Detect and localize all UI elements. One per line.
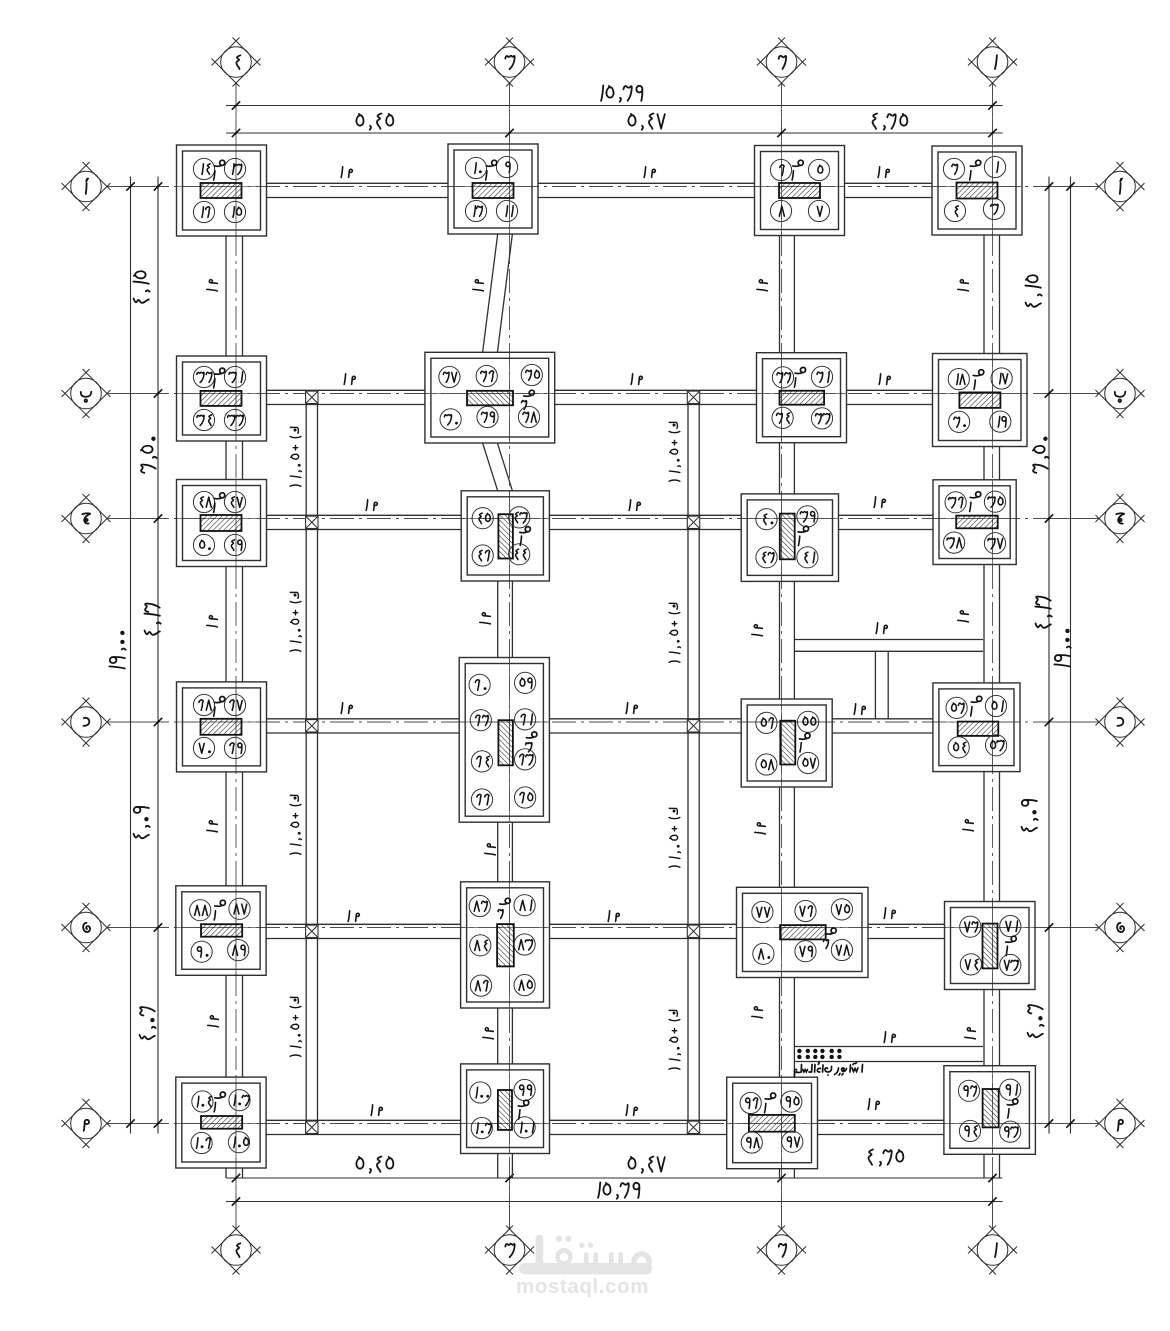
column marker on K-left at row E (306, 925, 318, 937)
pile circle 39 of F C2 (797, 506, 818, 527)
footing type label F C4 (214, 493, 225, 499)
column hatch F D1 (958, 722, 999, 736)
footing F A1 outer (932, 146, 1022, 235)
grid through footing F D4 (177, 721, 267, 723)
beam label M1 row C span 3 (874, 497, 875, 508)
grid line column 4 (235, 84, 237, 1228)
beam column 3 span 1 (483, 234, 498, 352)
beam row F span 1 (266, 1119, 461, 1121)
beam label M1 column 4 span 1 (207, 280, 218, 291)
bottom dimension line total 15,29 (226, 1201, 1003, 1203)
column hatch F E3 (497, 924, 514, 966)
beam label M1 column 4 span 3 (207, 616, 218, 627)
beam column 4 span 3 (225, 567, 227, 682)
pile circle 70 of F D4 (193, 737, 214, 758)
grid through footing F A4 (177, 186, 267, 188)
grid through footing F E2 (737, 927, 869, 929)
beam label M1 row B span 3 (879, 374, 880, 385)
pile circle 43 of F C3 (509, 507, 530, 528)
beam label M1 row B span 2 (631, 374, 632, 385)
pile circle 24 of F B2 (772, 407, 793, 428)
column bubble 2 top (781, 83, 783, 105)
stair note text (asha'ir bad' al-sullam) (835, 1063, 863, 1076)
left dimension line total 19,00 (130, 177, 132, 1134)
beam between columns 2 and 1 above row F (stair landing) (794, 1046, 983, 1048)
pile circle 11 of F A3 (496, 200, 517, 221)
column marker on K-right at row D (687, 720, 699, 732)
beam label M1 column 4 span 4 (207, 821, 218, 832)
column marker on K-left at row D (306, 720, 318, 732)
beam label M1 row D span 3 (854, 704, 855, 715)
pile circle 6 of F A2 (770, 159, 791, 180)
beam column 1 span 3 (983, 565, 985, 683)
pile circle 88 of F E4 (190, 900, 211, 921)
footing F D3 outer (459, 658, 549, 823)
beam column 4 span 2 (225, 441, 227, 480)
pile circle 25 of F B3 (521, 364, 542, 385)
pile circle 5 of F A2 (808, 159, 829, 180)
column hatch F C4 (201, 515, 242, 531)
pile circle 81 of F E3 (514, 895, 535, 916)
footing F E2 outer (737, 887, 869, 977)
footing type label F B3 (524, 390, 535, 396)
column hatch F B4 (201, 391, 242, 406)
footing F B1 outer (933, 354, 1028, 447)
pile circle 74 of F E1 (960, 954, 981, 975)
footing type label F E4 (215, 900, 226, 906)
footing F E1 outer (945, 902, 1036, 990)
footing type label F D2 (800, 733, 811, 739)
column hatch F A3 (473, 183, 514, 198)
beam K level label at (674.5,633) (669, 603, 680, 662)
pile circle 86 of F E3 (470, 975, 491, 996)
beam column 1 span 4 (983, 772, 985, 902)
pile circle 90 of F E4 (191, 941, 212, 962)
pile circle 63 of F D3 (515, 749, 536, 770)
footing type label F C1 (970, 492, 981, 498)
grid line row E (108, 927, 1098, 929)
row bubble LB left (62, 369, 90, 397)
column bubble 4 top (235, 83, 237, 105)
column marker on K-left at row C (306, 516, 318, 528)
pile circle 91 of F F1 (1000, 1079, 1021, 1100)
pile circle 83 of F E3 (514, 934, 535, 955)
pile circle 8 of F A2 (770, 200, 791, 221)
grid through footing F C1 (933, 518, 1016, 520)
beam row B span 2 (555, 389, 757, 391)
pile circle 20 of F B1 (949, 411, 970, 432)
column marker on K-right at row E (687, 925, 699, 937)
beam row E span 1 (266, 923, 461, 925)
footing F B3 outer (425, 352, 555, 443)
column hatch F F1 (983, 1089, 999, 1127)
left dimension line spans (157, 177, 159, 1134)
pile circle 87 of F E4 (229, 898, 250, 919)
pile circle 100 of F F3 (470, 1082, 491, 1103)
column bubble 4 bottom (235, 1202, 237, 1229)
pile circle 18 of F B1 (948, 369, 969, 390)
row bubble LJ left (62, 494, 90, 522)
footing type label F D1 (971, 696, 982, 702)
pile circle 45 of F C3 (472, 508, 493, 529)
pile circle 66 of F D3 (471, 789, 492, 810)
beam column 1 bottom stub (983, 1154, 985, 1178)
beam label M1 column 3 span 3 (480, 613, 491, 624)
grid through footing F A1 (932, 186, 1022, 188)
pile circle 97 of F F2 (782, 1131, 803, 1152)
pile circle 9 of F A3 (496, 156, 517, 177)
secondary beam K left (305, 394, 307, 1124)
beam column 2 span 5 (779, 978, 781, 1078)
beam label M1 column 2 span 3 (752, 625, 763, 636)
column hatch F C2 (780, 514, 795, 560)
right dimension line total 19,00 (1070, 177, 1072, 1134)
grid line row D (108, 721, 1098, 723)
grid through footing F C3 (461, 518, 549, 520)
pile circle 76 of F E2 (795, 900, 816, 921)
beam column 2 span 1 (779, 236, 781, 353)
column bubble 2 bottom (781, 1202, 783, 1229)
pile circle 58 of F D2 (756, 754, 777, 775)
beam label M1 row E span 3 (884, 908, 885, 919)
beam column 2 span 4 (779, 787, 781, 887)
beam label M1 column 2 span 5 (752, 1007, 763, 1018)
beam column 2 bottom stub (779, 1169, 781, 1178)
beam label M1 column 1 span 4 (963, 820, 974, 831)
grid through footing F E1 (945, 927, 1036, 929)
stair starter rebar dots (797, 1049, 801, 1053)
pile circle 17 of F B1 (991, 368, 1012, 389)
pile circle 68 of F D4 (193, 694, 214, 715)
pile circle 98 of F F2 (741, 1132, 762, 1153)
beam label M1 row C span 1 (366, 500, 367, 511)
footing F D2 outer (741, 699, 832, 787)
pile circle 96 of F F2 (740, 1092, 761, 1113)
pile circle 61 of F D3 (515, 709, 536, 730)
footing F F1 outer (944, 1066, 1036, 1155)
column hatch F A1 (957, 183, 998, 199)
column hatch F E4 (201, 924, 242, 937)
beam column 3 span 4 (497, 822, 499, 882)
column hatch F E1 (983, 924, 998, 969)
pile circle 26 of F B3 (476, 365, 497, 386)
pile circle 34 of F B4 (193, 409, 214, 430)
footing type label F E3 (500, 898, 511, 904)
beam row B span 3 (847, 389, 933, 391)
row bubble LH right (1096, 903, 1124, 931)
pile circle 14 of F A4 (193, 158, 214, 179)
pile circle 36 of F C1 (945, 492, 966, 513)
beam K level label at (674.5,838) (669, 808, 680, 867)
footing F A3 outer (448, 144, 538, 234)
beam label M1 row A span 3 (878, 167, 879, 178)
pile circle 21 of F B2 (811, 366, 832, 387)
pile circle 60 of F D3 (469, 674, 490, 695)
pile circle 49 of F C4 (224, 534, 245, 555)
pile circle 3 of F A1 (983, 198, 1004, 219)
pile circle 40 of F C2 (756, 509, 777, 530)
pile circle 51 of F D1 (985, 695, 1006, 716)
column marker on K-left at row B (306, 391, 318, 403)
beam column 4 span 5 (225, 975, 227, 1077)
column hatch F B1 (959, 392, 1000, 408)
pile circle 67 of F D4 (224, 694, 245, 715)
beam label M1 row D span 1 (341, 703, 342, 714)
top dimension line spans (226, 132, 1003, 134)
top dimension line total 15,29 (226, 105, 1003, 107)
beam row E span 2 (550, 923, 737, 925)
beam label M1 column 3 span 1 (473, 280, 484, 291)
beam label M1 (special beam) (876, 623, 877, 634)
grid line column 3 (509, 84, 511, 1228)
footing type label F E1 (1006, 936, 1017, 942)
footing F A4 outer (177, 145, 267, 236)
footing type label F A4 (214, 160, 225, 166)
grid through footing F B1 (933, 393, 1028, 395)
grid line column 1 (992, 84, 994, 1228)
pile circle 71 of F E1 (1000, 916, 1021, 937)
grid through footing F F3 (461, 1123, 550, 1125)
pile circle 1 of F A1 (984, 156, 1005, 177)
pile circle 16 of F A4 (193, 201, 214, 222)
beam column 3 span 2 (483, 443, 498, 491)
pile circle 19 of F B1 (990, 411, 1011, 432)
beam label M1 row E span 2 (608, 911, 609, 922)
beam column 3 bottom stub (497, 1154, 499, 1179)
column hatch F D4 (201, 719, 242, 735)
pile circle 101 of F F3 (514, 1117, 535, 1138)
pile circle 48 of F C4 (193, 491, 214, 512)
pile circle 56 of F D2 (756, 712, 777, 733)
grid through footing F F4 (176, 1123, 266, 1125)
column marker on K-left at row F (306, 1121, 318, 1133)
row bubble LB right (1096, 369, 1124, 397)
pile circle 32 of F B4 (193, 366, 214, 387)
pile circle 104 of F F4 (192, 1091, 213, 1112)
grid line row A (108, 186, 1098, 188)
beam column 1 span 5 (983, 990, 985, 1066)
footing type label F B1 (973, 370, 984, 376)
beam between columns 2 and 1 above row D (794, 639, 983, 641)
beam label M1 row F span 2 (626, 1105, 627, 1116)
beam K level label at (295.5,622) (290, 592, 301, 651)
footing type label F B4 (214, 368, 225, 374)
footing type label F A1 (970, 160, 981, 166)
footing type label F D4 (214, 697, 225, 703)
beam row C span 1 (267, 514, 462, 516)
footing F A2 outer (755, 146, 845, 236)
beam label M1 column 4 span 5 (208, 1016, 219, 1027)
beam row D span 3 (832, 718, 933, 720)
column hatch F D2 (780, 721, 795, 765)
beam label M1 column 1 span 1 (958, 280, 969, 291)
beam row E span 3 (868, 923, 945, 925)
pile circle 22 of F B2 (772, 367, 793, 388)
column hatch F B3 (467, 391, 513, 406)
pile circle 69 of F D4 (224, 737, 245, 758)
footing type label F F4 (215, 1092, 226, 1098)
pile circle 103 of F F4 (229, 1090, 250, 1111)
beam label M1 row E span 1 (348, 911, 349, 922)
column hatch F F4 (201, 1116, 242, 1129)
beam column 3 span 5 (497, 1008, 499, 1064)
beam label M1 row A span 1 (341, 167, 342, 178)
pile circle 94 of F F1 (959, 1120, 980, 1141)
beam column 4 span 4 (225, 772, 227, 886)
beam label M1 row F span 3 (868, 1099, 869, 1110)
grid through footing F A3 (448, 186, 538, 188)
column bubble 3 bottom (509, 1202, 511, 1229)
pile circle 75 of F E2 (831, 899, 852, 920)
column hatch F F3 (498, 1090, 512, 1130)
footing type label F B2 (795, 367, 806, 373)
footing type label F F3 (518, 1100, 529, 1106)
grid line row F (108, 1123, 1098, 1125)
pile circle 59 of F D3 (515, 672, 536, 693)
pile circle 82 of F E3 (469, 895, 490, 916)
grid through footing F D2 (741, 721, 832, 723)
pile circle 13 of F A4 (224, 158, 245, 179)
beam row A span 3 (845, 182, 933, 184)
beam label M1 row F span 1 (371, 1105, 372, 1116)
beam label M1 column 2 span 4 (755, 823, 766, 834)
pile circle 79 of F E2 (795, 941, 816, 962)
pile circle 53 of F D1 (986, 735, 1007, 756)
beam column 4 span 1 (225, 236, 227, 356)
beam K level label at (674.5,1040) (669, 1010, 680, 1069)
pile circle 46 of F C3 (472, 545, 493, 566)
stub beam down to row D (874, 651, 876, 719)
footing F D1 outer (933, 683, 1020, 772)
grid through footing F E3 (461, 927, 550, 929)
pile circle 10 of F A3 (465, 157, 486, 178)
footing type label F C3 (520, 527, 531, 533)
beam row C span 2 (549, 514, 741, 516)
column bubble 1 bottom (992, 1202, 994, 1229)
row bubble LM left (62, 1099, 90, 1127)
beam row F span 2 (550, 1119, 727, 1121)
column marker on K-right at row B (687, 391, 699, 403)
footing type label F F2 (765, 1093, 776, 1099)
pile circle 12 of F A3 (465, 200, 486, 221)
column marker on K-right at row C (687, 516, 699, 528)
pile circle 64 of F D3 (471, 751, 492, 772)
column hatch F E2 (780, 925, 826, 939)
beam row B span 1 (267, 389, 425, 391)
pile circle 80 of F E2 (753, 943, 774, 964)
column bubble 3 top (509, 83, 511, 105)
beam row F span 3 (818, 1119, 944, 1121)
pile circle 105 of F F4 (228, 1132, 249, 1153)
pile circle 85 of F E3 (514, 975, 535, 996)
beam column 2 span 3 (779, 581, 781, 699)
secondary beam K right (687, 394, 689, 1124)
footing F B2 outer (757, 353, 847, 443)
pile circle 93 of F F1 (1000, 1121, 1021, 1142)
pile circle 15 of F A4 (224, 201, 245, 222)
beam label M1 column 1 span 5 (965, 1028, 976, 1039)
pile circle 35 of F C1 (984, 491, 1005, 512)
pile circle 102 of F F3 (471, 1118, 492, 1139)
pile circle 29 of F B3 (477, 406, 498, 427)
beam K level label at (295.5,1027) (290, 997, 301, 1056)
footing type label F E2 (826, 928, 837, 934)
grid through footing F B4 (177, 393, 267, 395)
row bubble LA right (1096, 162, 1124, 190)
grid through footing F E4 (176, 927, 266, 929)
pile circle 41 of F C2 (797, 547, 818, 568)
grid through footing F F1 (944, 1123, 1035, 1125)
beam K level label at (674.5,452) (669, 422, 680, 481)
footing type label F D3 (526, 732, 537, 738)
footing type label F A2 (793, 160, 804, 166)
grid through footing F B2 (757, 393, 847, 395)
pile circle 44 of F C3 (509, 544, 530, 565)
row bubble LM right (1096, 1099, 1124, 1127)
bottom dimension line spans (226, 1177, 1003, 1179)
beam label M1 row B span 1 (344, 374, 345, 385)
pile circle 38 of F C1 (944, 532, 965, 553)
grid through footing F B3 (425, 393, 555, 395)
column hatch F B2 (780, 391, 825, 405)
pile circle 28 of F B3 (518, 406, 539, 427)
beam column 3 span 3 (497, 581, 499, 658)
footing F C3 outer (461, 491, 549, 581)
grid line row C (108, 518, 1098, 520)
pile circle 37 of F C1 (984, 533, 1005, 554)
grid through footing F C4 (177, 518, 267, 520)
beam row C span 3 (839, 514, 934, 516)
pile circle 47 of F C4 (224, 491, 245, 512)
pile circle 89 of F E4 (228, 940, 249, 961)
beam label M1 (stair beam) (884, 1032, 885, 1043)
pile circle 42 of F C2 (756, 547, 777, 568)
footing F D4 outer (177, 682, 267, 772)
footing F C4 outer (177, 480, 267, 567)
footing F C2 outer (741, 494, 838, 582)
pile circle 65 of F D3 (515, 787, 536, 808)
pile circle 92 of F F1 (958, 1080, 979, 1101)
footing type label F F1 (1007, 1099, 1018, 1105)
pile circle 73 of F E1 (1000, 954, 1021, 975)
footing F F2 outer (727, 1077, 818, 1169)
row bubble LJ right (1096, 494, 1124, 522)
beam column 1 span 1 (983, 235, 985, 354)
right dimension line spans (1048, 177, 1050, 1134)
pile circle 84 of F E3 (470, 935, 491, 956)
pile circle 55 of F D2 (798, 711, 819, 732)
column hatch F A4 (201, 183, 242, 198)
grid through footing F F2 (727, 1123, 818, 1125)
beam column 4 bottom stub (225, 1168, 227, 1178)
footing F F4 outer (176, 1077, 266, 1168)
pile circle 33 of F B4 (224, 409, 245, 430)
beam row D span 2 (549, 718, 741, 720)
column hatch F C3 (498, 514, 513, 558)
pile circle 31 of F B4 (224, 366, 245, 387)
pile circle 52 of F D1 (946, 697, 967, 718)
column bubble 1 top (992, 83, 994, 105)
pile circle 57 of F D2 (798, 752, 819, 773)
beam label M1 row C span 2 (629, 500, 630, 511)
grid through footing F C2 (741, 518, 838, 520)
pile circle 54 of F D1 (948, 737, 969, 758)
beam label M1 column 1 span 3 (958, 611, 969, 622)
footing F F3 outer (461, 1064, 550, 1154)
row bubble LD left (62, 698, 90, 726)
beam label M1 column 3 span 4 (485, 844, 496, 855)
footing type label F A3 (486, 160, 497, 166)
